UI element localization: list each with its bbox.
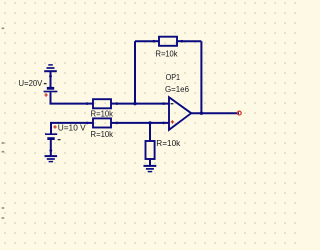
node dot R2 left pin — [86, 122, 89, 125]
wire row2 from V2 to R2 — [51, 123, 87, 134]
ground G3 (below R3) — [144, 166, 157, 172]
svg-text:U=20V: U=20V — [19, 78, 43, 88]
voltage source V1 U=20V — [44, 83, 58, 97]
edge mark 2 — [2, 142, 5, 144]
node dot R1 right pin — [116, 102, 119, 105]
wire feedback right vertical — [200, 41, 202, 113]
svg-text:R=10k: R=10k — [156, 49, 179, 59]
wire V2 bottom — [50, 140, 52, 155]
op-amp OP1 — [169, 97, 191, 130]
wire output — [191, 112, 239, 114]
edge mark 4 — [2, 207, 5, 209]
wire row2 to op-amp plus input — [117, 122, 169, 124]
node dot R4 right pin — [181, 40, 184, 43]
open node terminal (red circle) — [237, 111, 241, 115]
edge mark 1 — [2, 28, 5, 30]
wire R3 top — [149, 123, 151, 141]
junction output node — [200, 112, 203, 115]
voltage source V2 U=10 V — [45, 125, 61, 140]
junction row1 / feedback tap — [133, 102, 136, 105]
node dot R2 right pin — [116, 122, 119, 125]
edge mark 3 — [2, 151, 5, 153]
ground G1 (flipped, above V1) — [44, 65, 57, 76]
wire row1 to op-amp minus input — [117, 103, 169, 105]
resistor R1 — [87, 99, 117, 108]
node dot V1 top pin — [49, 75, 52, 78]
svg-text:G=1e6: G=1e6 — [165, 84, 189, 94]
node dot op-amp minus pin — [162, 102, 165, 105]
wire feedback top left — [135, 40, 154, 42]
resistor R4 feedback — [154, 37, 182, 46]
resistor R3 — [146, 141, 155, 159]
wire R3 bottom — [149, 159, 151, 165]
node dot op-amp plus pin — [162, 122, 165, 125]
ground G2 (below V2) — [45, 156, 58, 162]
node dot R1 left pin — [86, 102, 89, 105]
junction row2 / R3 tap — [148, 121, 151, 124]
node dot V2 bottom pin — [49, 149, 52, 152]
svg-text:R=10k: R=10k — [91, 109, 114, 119]
svg-text:OP1: OP1 — [166, 72, 181, 82]
edge mark 5 — [2, 217, 5, 219]
svg-text:U=10 V: U=10 V — [58, 123, 86, 133]
wire V1 top — [50, 76, 52, 87]
node dot R4 left pin — [153, 40, 156, 43]
wire feedback top right — [182, 40, 202, 42]
resistor R2 — [87, 118, 117, 127]
svg-text:R=10k: R=10k — [156, 138, 181, 148]
wire feedback left vertical — [134, 41, 136, 103]
svg-text:R=10k: R=10k — [91, 129, 114, 139]
wire V1 bottom to row1 — [51, 92, 88, 103]
